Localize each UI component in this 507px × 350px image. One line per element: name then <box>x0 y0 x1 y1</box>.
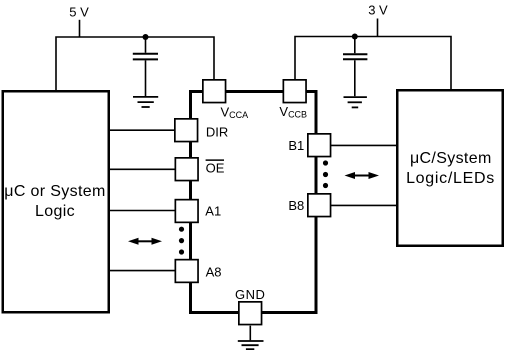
svg-text:3 V: 3 V <box>368 2 388 17</box>
ground symbol left <box>133 97 158 107</box>
wire capacitor C1 bottom lead <box>145 60 147 96</box>
pin VCCB <box>283 80 306 103</box>
ground symbol right <box>344 97 367 107</box>
bidirectional arrow left <box>128 238 162 245</box>
svg-text:5 V: 5 V <box>69 4 89 19</box>
svg-text:μC/System: μC/System <box>410 150 492 167</box>
block U1 left: uC or System Logic <box>3 91 109 312</box>
pin label OE with overline <box>206 160 225 176</box>
svg-text:OE: OE <box>206 161 225 176</box>
svg-text:VCCB: VCCB <box>279 104 307 120</box>
svg-text:A8: A8 <box>206 264 222 279</box>
junction dot on 3V rail <box>352 34 358 40</box>
svg-text:Logic/LEDs: Logic/LEDs <box>406 170 495 187</box>
wire capacitor C1 top lead <box>145 37 147 53</box>
svg-text:B8: B8 <box>288 198 304 213</box>
wire A8 <box>110 270 175 272</box>
pin GND <box>239 302 262 325</box>
svg-text:VCCA: VCCA <box>221 104 249 120</box>
wire B8 <box>331 204 397 206</box>
pin B1 <box>308 134 331 157</box>
wire 3V stub <box>377 19 379 37</box>
wire GND lead <box>249 326 251 341</box>
svg-text:A1: A1 <box>205 204 221 219</box>
pin A1 <box>175 200 198 223</box>
wire capacitor C2 bottom lead <box>354 60 356 96</box>
pin B8 <box>308 194 331 217</box>
svg-text:GND: GND <box>235 287 265 302</box>
pin OE <box>175 158 198 181</box>
pin DIR <box>175 119 198 142</box>
text uC/System Logic/LEDs <box>406 150 495 187</box>
wire 3V rail <box>295 37 451 90</box>
pin A8 <box>175 260 198 283</box>
IC U2 body outline <box>191 92 317 313</box>
wire A1 <box>110 210 175 212</box>
wire 5V stub <box>79 20 81 37</box>
ellipsis dots B side <box>323 160 328 188</box>
block U3 right: uC/System Logic/LEDs <box>397 90 503 246</box>
svg-text:μC or System: μC or System <box>4 183 105 200</box>
svg-text:B1: B1 <box>288 138 304 153</box>
svg-text:DIR: DIR <box>206 125 228 140</box>
bidirectional arrow right <box>345 172 380 179</box>
wire DIR <box>110 129 175 131</box>
wire capacitor C2 top lead <box>354 37 356 54</box>
ellipsis dots A side <box>179 227 184 255</box>
ground symbol bottom <box>238 341 264 349</box>
pin VCCA <box>203 80 226 103</box>
capacitor C2 <box>343 54 367 59</box>
text uC or System Logic <box>4 183 105 220</box>
wire OE <box>110 168 175 170</box>
capacitor C1 <box>133 54 158 60</box>
junction dot on 5V rail <box>143 34 149 40</box>
wire B1 <box>331 144 397 146</box>
wire 5V rail <box>56 37 214 90</box>
svg-text:Logic: Logic <box>35 203 75 220</box>
